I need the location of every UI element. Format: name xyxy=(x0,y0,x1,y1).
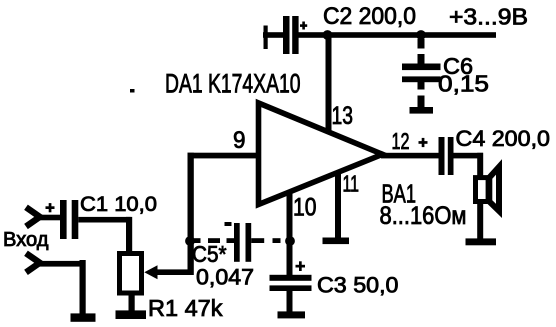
wire xyxy=(263,32,284,38)
svg-text:12: 12 xyxy=(392,128,410,154)
svg-text:C1 10,0: C1 10,0 xyxy=(80,193,157,216)
potentiometer R1 xyxy=(120,254,142,294)
capacitor C3 plus mark xyxy=(296,261,306,271)
terminal bar at left end of supply wire xyxy=(264,26,268,50)
wire supply rail xyxy=(299,32,497,38)
node junction C5 left xyxy=(185,236,195,246)
ground speaker xyxy=(466,238,497,245)
wire C4 to speaker xyxy=(454,153,484,159)
svg-text:11: 11 xyxy=(343,171,360,197)
svg-text:+3...9В: +3...9В xyxy=(449,4,528,30)
wire C1 to R1 xyxy=(78,217,130,223)
capacitor C3 xyxy=(270,275,312,312)
svg-text:C4 200,0: C4 200,0 xyxy=(456,126,551,151)
wire pin 10 vertical xyxy=(287,192,293,276)
wire pin13 vertical xyxy=(326,35,332,132)
wire input to C1 xyxy=(39,215,61,221)
input terminal top xyxy=(26,207,40,226)
node junction C6 xyxy=(416,30,426,40)
capacitor C1 xyxy=(60,200,78,239)
ground pin 11 xyxy=(323,238,350,245)
capacitor C5 dashed link left xyxy=(194,238,235,243)
capacitor C6 xyxy=(402,39,441,108)
svg-text:10: 10 xyxy=(293,194,317,222)
capacitor C5 dashed link right xyxy=(251,238,280,243)
ground input xyxy=(71,313,96,321)
svg-text:0,15: 0,15 xyxy=(438,71,489,97)
input plus mark xyxy=(46,203,55,212)
capacitor C4 xyxy=(439,137,454,175)
wire R1 to ground xyxy=(129,294,135,311)
input terminal bottom xyxy=(26,253,40,272)
svg-text:R1 47k: R1 47k xyxy=(148,295,223,321)
svg-text:9: 9 xyxy=(233,127,246,154)
wiper arrow of R1 xyxy=(144,265,193,279)
ground C6 xyxy=(410,107,434,114)
capacitor C5 xyxy=(234,223,251,262)
svg-text:13: 13 xyxy=(332,102,354,130)
ground C3 xyxy=(278,311,306,318)
wire speaker to ground xyxy=(477,202,483,239)
op-amp DA1 triangle xyxy=(259,103,383,205)
capacitor C2 xyxy=(283,16,307,54)
wire input bottom to ground xyxy=(39,261,86,267)
svg-text:C5*: C5* xyxy=(192,241,227,267)
svg-text:Вход: Вход xyxy=(3,229,49,251)
svg-text:C2 200,0: C2 200,0 xyxy=(323,3,416,30)
node junction pin10/C5/C3 xyxy=(285,236,295,246)
wire left vertical to wiper node xyxy=(188,153,194,275)
svg-text:0,047: 0,047 xyxy=(196,264,254,289)
speaker BA1 xyxy=(476,167,500,211)
svg-text:DA1 K174ХА10: DA1 K174ХА10 xyxy=(165,68,301,98)
svg-text:8...16Ом: 8...16Ом xyxy=(380,202,467,230)
stray speck xyxy=(130,89,135,93)
ground R1 xyxy=(116,310,147,319)
wire pin 9 horizontal xyxy=(188,153,258,159)
node junction C2/pin13 xyxy=(323,30,333,40)
wire pin 12 output xyxy=(381,153,439,159)
capacitor C4 plus mark xyxy=(419,138,428,147)
svg-text:C3 50,0: C3 50,0 xyxy=(317,272,399,297)
stray speck above C5 xyxy=(225,222,232,226)
wire pin 11 vertical xyxy=(335,172,341,238)
